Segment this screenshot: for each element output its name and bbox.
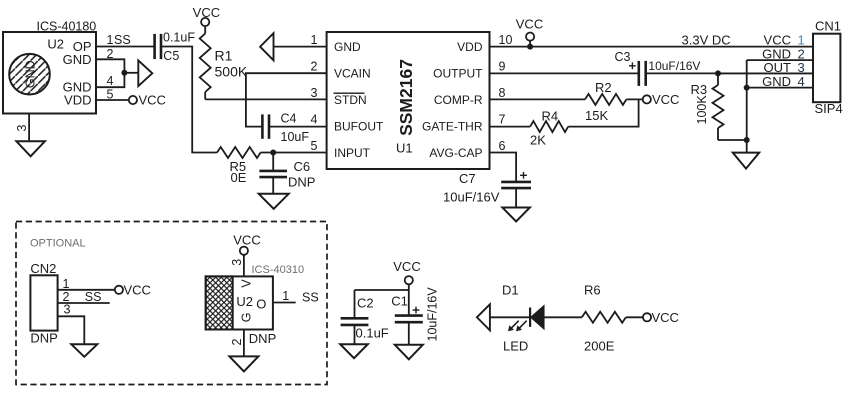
wire AVG-CAP pin6 to C7 [490,139,517,182]
svg-text:3: 3 [230,259,244,266]
capacitor C5 0.1uF [155,31,196,64]
op-amp/IC U1 SSM2167 body [327,32,490,169]
svg-text:0.1uF: 0.1uF [163,31,195,45]
resistor R6 200E [582,283,626,354]
svg-text:C7: C7 [459,171,476,186]
svg-text:VCC: VCC [233,232,260,247]
svg-text:9: 9 [499,59,506,73]
svg-text:R6: R6 [584,283,601,298]
svg-text:1: 1 [63,277,70,291]
ground below ICS-40310 [229,356,258,371]
wire C4 to BUFOUT pin4 [269,112,327,126]
VCC terminal above R1 [193,5,220,26]
svg-text:VCAIN: VCAIN [334,67,371,81]
svg-text:1: 1 [107,33,114,47]
connector CN2 DNP [30,261,57,346]
svg-text:VCC: VCC [124,282,151,297]
svg-text:COMP-R: COMP-R [434,93,483,107]
svg-text:R4: R4 [542,109,559,124]
svg-text:3: 3 [64,303,71,317]
svg-text:D1: D1 [502,283,519,298]
svg-text:VCC: VCC [652,310,679,325]
off-page connector at D1 [477,304,490,330]
U2 pin 3 wire [15,114,29,142]
svg-text:O: O [256,297,266,312]
svg-text:OPTIONAL: OPTIONAL [30,237,86,249]
svg-text:GND: GND [334,40,361,54]
svg-text:CN1: CN1 [815,19,841,34]
off-page connector at U2 GND [138,60,152,86]
svg-text:C3: C3 [615,50,631,64]
resistor R4 2K [530,109,568,148]
resistor R1 500K [200,26,248,99]
ground below C6 [259,194,289,209]
wire R1 to STDN pin3 [205,98,326,100]
wire GATE-THR pin7 to R4 [490,112,531,126]
svg-text:7: 7 [499,112,506,126]
wire R4 up to VCC node [568,99,638,126]
svg-text:500K: 500K [215,64,248,80]
svg-text:10: 10 [499,33,513,47]
svg-text:VCC: VCC [652,92,679,107]
svg-text:0.1uF: 0.1uF [356,326,389,341]
resistor R5 0E [217,147,261,185]
U2 ICS-40310 pin3 wire [230,255,244,277]
svg-text:4: 4 [798,74,805,89]
svg-text:10uF/16V: 10uF/16V [648,59,700,73]
optional section dashed box [16,222,327,385]
svg-text:2: 2 [107,47,114,61]
LED D1 [502,283,544,354]
U2 pin5 VDD wire to VCC [96,88,166,108]
CN1 pin3 OUT wire [718,60,813,75]
svg-text:1: 1 [311,33,318,47]
connector CN1 SIP4 [813,19,843,117]
ICS-40310 label [252,264,305,276]
wire OUTPUT pin9 to C3 [490,59,639,73]
svg-text:SS: SS [114,33,131,47]
svg-text:U2: U2 [236,294,253,309]
wire to U1 pin1 [274,33,327,47]
svg-text:U1: U1 [396,141,413,156]
junction R5/C6 [270,150,276,156]
svg-text:OUT: OUT [764,60,792,75]
svg-text:DNP: DNP [30,331,57,346]
CN1 pin1 VCC [764,33,805,48]
CN2 pin1 wire to VCC [58,277,151,297]
svg-text:10uF/16V: 10uF/16V [443,190,500,205]
capacitor C2 0.1uF [341,296,389,345]
capacitor C7 10uF/16V [443,171,531,208]
ground below CN2 [71,344,97,357]
junction U2 pins 2-4 [121,70,127,76]
wire VCAIN to C4 [246,59,327,126]
wire C5 to INPUT row [161,47,217,153]
svg-text:3: 3 [311,86,318,100]
microphone U2 ICS-40180 label [37,20,97,34]
svg-text:VDD: VDD [64,93,91,108]
svg-text:VCC: VCC [139,93,166,108]
svg-text:LED: LED [503,339,528,354]
ground below C1 [395,345,423,360]
svg-text:3.3V DC: 3.3V DC [682,33,731,48]
VCC terminal above U2 ICS-40310 [233,232,260,254]
wire COMP-R pin8 to R2 [490,86,586,100]
svg-text:V: V [240,279,254,288]
svg-text:G: G [240,313,254,323]
svg-text:3: 3 [798,60,805,75]
svg-text:R2: R2 [595,80,612,95]
svg-text:C2: C2 [357,296,374,311]
svg-text:SIP4: SIP4 [815,101,843,116]
svg-text:200E: 200E [584,339,615,354]
svg-text:GND: GND [762,74,791,89]
svg-text:GND: GND [24,60,38,88]
U2 pin1 OP wire, net SS [96,33,154,47]
CN1 pin2 GND wire [747,47,813,62]
svg-text:15K: 15K [585,108,608,123]
svg-text:BUFOUT: BUFOUT [334,120,384,134]
svg-text:4: 4 [311,112,318,126]
wire C3 to CN1 OUT [646,72,813,74]
VCC terminal above C1 [393,259,420,284]
svg-text:100K: 100K [695,95,709,125]
svg-text:C4: C4 [281,112,297,126]
svg-text:6: 6 [499,139,506,153]
capacitor C1 10uF/16V [391,287,439,345]
svg-text:U2: U2 [47,37,64,52]
ground below CN1 [733,153,759,169]
U2 ICS-40310 pin2 wire [230,330,276,357]
svg-text:3: 3 [15,125,29,132]
svg-text:2K: 2K [530,133,546,148]
CN2 pin3 wire to ground [58,303,85,345]
svg-text:SS: SS [302,290,319,304]
svg-text:ICS-40310: ICS-40310 [252,264,305,276]
svg-text:4: 4 [107,74,114,88]
svg-text:1: 1 [798,33,805,48]
capacitor C6 DNP [259,153,315,194]
microphone U2 body [3,32,96,114]
resistor R3 100K [691,73,724,140]
wire R3 bottom to GND rail [718,137,750,143]
resistor R2 15K [585,80,626,123]
VCC terminal at VDD [516,16,543,49]
svg-text:C1: C1 [391,294,408,309]
svg-text:C6: C6 [294,159,311,174]
CN1 pin4 GND wire [747,74,813,89]
ground below U2 [16,141,45,156]
svg-text:DNP: DNP [288,175,315,190]
svg-text:GND: GND [63,52,92,67]
OPTIONAL label [30,237,86,249]
svg-text:CN2: CN2 [30,261,56,276]
microphone U2 ICS-40310 body [206,276,273,329]
svg-text:5: 5 [107,88,114,102]
svg-text:2: 2 [311,59,318,73]
GND rail of CN1 [744,60,750,153]
U2 pins 2,4 wires [96,47,138,88]
ground below C2 [340,344,368,358]
svg-text:DNP: DNP [249,331,276,346]
svg-text:R3: R3 [691,82,708,97]
svg-text:R1: R1 [215,48,233,64]
svg-text:GATE-THR: GATE-THR [422,120,483,134]
wire VCC to C1 and C2 [355,284,409,318]
off-page connector at U1 GND [260,33,273,60]
svg-text:VCC: VCC [393,259,420,274]
capacitor C3 10uF/16V [615,50,701,86]
svg-text:5: 5 [311,139,318,153]
svg-text:VDD: VDD [457,40,483,54]
pin3 number [311,86,318,100]
wire U1 VDD pin10 to CN1 pin1, 3.3V DC [490,33,814,48]
U2 ICS-40310 pin1 wire, net SS [273,289,319,304]
wire R6 to VCC [626,310,679,325]
svg-text:10uF/16V: 10uF/16V [426,287,440,342]
wire LED to R6 [544,316,582,318]
capacitor C4 10uF [262,112,309,145]
svg-text:SSM2167: SSM2167 [396,59,416,136]
CN2 pin2 wire, net SS [58,290,110,304]
svg-text:OUTPUT: OUTPUT [433,67,483,81]
svg-text:8: 8 [499,86,506,100]
svg-text:VCC: VCC [764,33,791,48]
svg-text:STDN: STDN [334,93,367,107]
svg-text:VCC: VCC [516,16,543,31]
svg-text:AVG-CAP: AVG-CAP [429,146,482,160]
svg-text:C5: C5 [163,49,179,63]
svg-text:INPUT: INPUT [334,146,371,160]
svg-text:SS: SS [85,290,102,304]
svg-text:0E: 0E [231,170,247,185]
svg-text:1: 1 [282,289,289,303]
junction at R3 top [715,70,721,76]
wire R2 to VCC [626,92,679,107]
ground below C7 [502,208,530,222]
wire R5 to U1 INPUT pin5 [261,139,327,153]
wire to LED [490,316,530,318]
svg-text:2: 2 [230,339,244,346]
svg-text:10uF: 10uF [281,130,310,144]
